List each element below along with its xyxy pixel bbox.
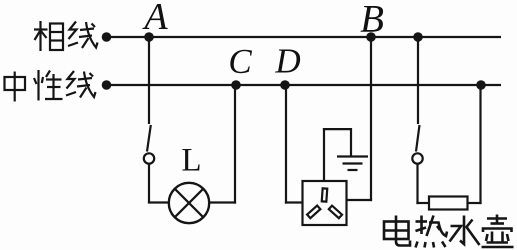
svg-text:C: C (228, 42, 252, 81)
svg-text:A: A (141, 0, 168, 38)
wire B down to socket (347, 37, 373, 201)
node kettle-live (413, 32, 423, 42)
node B (366, 32, 376, 42)
node C (231, 80, 241, 90)
svg-text:D: D (274, 42, 300, 81)
wire kettle to neutral (468, 85, 482, 204)
socket slot (earth pin, top center) (322, 188, 327, 201)
node kettle-neutral (476, 80, 486, 90)
switch S2 (kettle branch) (412, 37, 422, 204)
kettle heating element (resistor) (429, 197, 468, 210)
svg-text:L: L (181, 143, 201, 179)
label 线 (of 中性线) (66, 71, 96, 98)
label 电 (of 电热水壶) (384, 216, 410, 246)
wire: neutral line (中性线) (110, 84, 501, 86)
socket slot (left, slanted) (307, 206, 320, 219)
node D (280, 80, 290, 90)
wire to lamp (148, 201, 169, 203)
wire to kettle (416, 202, 429, 204)
terminal dot live (102, 32, 112, 42)
label 中 (neutral) (5, 72, 26, 102)
label 壶 (482, 215, 514, 248)
earth wire loop from socket top (323, 128, 352, 181)
wire lamp to C (209, 85, 236, 204)
label 热 (416, 216, 448, 248)
label 性 (34, 70, 63, 101)
node A (144, 32, 154, 42)
svg-text:B: B (360, 0, 384, 41)
ground symbol (337, 157, 368, 171)
wire D down to socket (285, 85, 302, 204)
switch S1 (lamp branch) (144, 37, 154, 204)
label 线 (of 相线) (68, 22, 98, 49)
lamp L (169, 183, 209, 223)
label 相线 (live wire) (34, 21, 63, 51)
label 水 (450, 216, 480, 246)
socket outlet box (303, 181, 347, 225)
wire: live line (相线) (110, 36, 501, 38)
terminal dot neutral (102, 80, 112, 90)
socket slot (right, slanted) (329, 206, 342, 219)
